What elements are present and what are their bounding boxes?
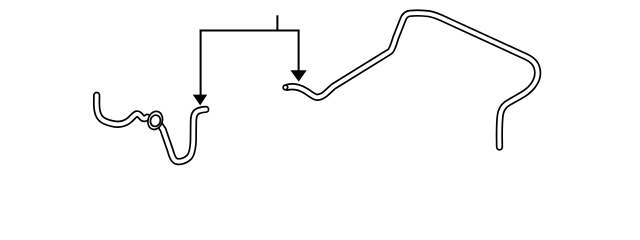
open end fitting on part 2 bbox=[283, 85, 288, 90]
hose part 2 (long tube) outline bbox=[287, 13, 538, 147]
hose part 1 inner white bbox=[97, 95, 206, 161]
leader line right bbox=[298, 30, 300, 73]
hose part 1 (left small tube) outline bbox=[97, 95, 206, 161]
callout tick (label stem) bbox=[276, 15, 278, 30]
callout bracket horizontal line bbox=[200, 30, 300, 32]
grommet ring on part 1 bbox=[146, 110, 165, 132]
arrowhead right bbox=[290, 70, 306, 81]
hose part 2 inner white bbox=[287, 13, 538, 147]
arrowhead left bbox=[193, 95, 208, 106]
leader line left bbox=[200, 30, 202, 97]
